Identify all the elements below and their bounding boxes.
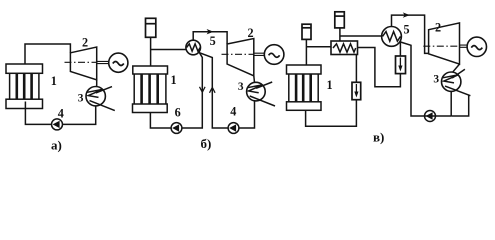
wire: cooling water return leg (scheme v) [451, 95, 469, 116]
svg-text:в): в) [373, 130, 384, 145]
expansion tank primary (scheme v) [302, 24, 311, 39]
EM pump 1 (scheme v) [352, 82, 361, 99]
pump P4 (scheme a) [52, 119, 63, 130]
wire: secondary sodium loop IHX right to EM pump 2 (scheme v) [358, 48, 401, 87]
wire: steam line SG to turbine (scheme b) [193, 32, 227, 44]
svg-text:1: 1 [171, 73, 177, 87]
reactor R1 (scheme b) [133, 66, 168, 113]
EM pump 2 (scheme v) [396, 56, 406, 74]
wire: IHX top to SG inlet with tank stem (scheme v) [340, 28, 382, 41]
wire: EM pump 1 to reactor bottom (scheme v) [306, 100, 357, 127]
shaft coupling (scheme b) [254, 53, 264, 55]
svg-text:3: 3 [238, 81, 244, 93]
wire: condenser drain to feed wire (scheme v) [450, 91, 452, 116]
flow arrow up on feed riser (scheme b) [210, 87, 216, 93]
wire: SG primary outlet downcomer (scheme b) [182, 52, 202, 128]
wire: EM pump 2 to SG bottom (scheme v) [399, 41, 401, 56]
wire: reactor top to IHX with tank stem (scheme v) [306, 39, 331, 65]
svg-text:6: 6 [175, 106, 181, 120]
wire: pump 6 to reactor bottom (scheme b) [150, 113, 171, 129]
shaft centerline dash-dot (scheme a) [65, 61, 98, 63]
generator G (scheme a) [109, 53, 128, 72]
condenser C3 (scheme v) [442, 69, 471, 95]
flow arrow on steam line (scheme v) [403, 12, 410, 17]
condenser C3 (scheme a) [86, 87, 115, 111]
wire: reactor to steam generator hot leg + pressurizer stem (scheme b) [151, 37, 187, 66]
shaft centerline dash-dot (scheme b) [222, 53, 255, 55]
generator G (scheme v) [467, 37, 486, 56]
reactor R1 (scheme a) [6, 64, 43, 109]
steam generator SG5 (scheme v) [382, 27, 402, 47]
wire: condenser to pump 4 (scheme b) [239, 101, 255, 128]
wire: IHX bottom to EM pump 1 (scheme v) [355, 55, 357, 83]
svg-text:4: 4 [230, 105, 236, 119]
shaft coupling (scheme a) [97, 61, 109, 63]
wire: steam line SG to turbine (scheme v) [392, 15, 429, 53]
wire: feed wire with pump to riser (scheme v) [400, 42, 451, 116]
wire: pump to reactor bottom (scheme a) [25, 102, 51, 125]
svg-text:2: 2 [82, 36, 88, 50]
svg-text:а): а) [51, 138, 62, 153]
wire: condenser to pump (scheme a) [63, 106, 96, 125]
pressurizer tank (scheme b) [146, 18, 156, 37]
pump P6 (scheme b) [171, 123, 182, 134]
turbine T2 (scheme a) [70, 47, 96, 80]
intermediate heat exchanger box (scheme v) [331, 41, 358, 55]
svg-text:3: 3 [78, 92, 84, 104]
wire: turbine exhaust to condenser (scheme v) [453, 64, 460, 72]
pump P4 (scheme b) [228, 123, 239, 134]
svg-text:б): б) [201, 136, 212, 151]
svg-text:4: 4 [58, 107, 64, 121]
svg-text:5: 5 [404, 23, 410, 37]
svg-text:5: 5 [210, 34, 216, 48]
turbine T2 (scheme b) [227, 39, 254, 76]
reactor R1 (scheme v) [287, 65, 322, 110]
svg-text:2: 2 [248, 26, 254, 40]
wire: pump 4 to SG feed riser (scheme b) [199, 52, 228, 128]
expansion tank secondary (scheme v) [335, 12, 345, 28]
shaft centerline dash-dot (scheme v) [423, 45, 460, 47]
turbine T2 (scheme v) [429, 23, 460, 64]
steam generator SG5 (scheme b) [186, 40, 201, 55]
wire: turbine exhaust to condenser (scheme b) [253, 76, 256, 83]
wire: reactor outlet to turbine inlet (scheme a) [25, 44, 70, 64]
svg-text:1: 1 [51, 74, 57, 88]
generator G (scheme b) [264, 45, 284, 65]
svg-text:1: 1 [327, 78, 333, 92]
wire: turbine exhaust to condenser (scheme a) [96, 80, 98, 87]
svg-text:2: 2 [435, 20, 441, 34]
flow arrow on steam line (scheme b) [207, 29, 214, 34]
shaft coupling (scheme v) [460, 45, 468, 47]
svg-text:3: 3 [433, 74, 439, 86]
condenser C3 (scheme b) [247, 82, 275, 106]
pump P4 (scheme v) [425, 111, 436, 122]
flow arrow down on primary downcomer (scheme b) [200, 86, 206, 93]
